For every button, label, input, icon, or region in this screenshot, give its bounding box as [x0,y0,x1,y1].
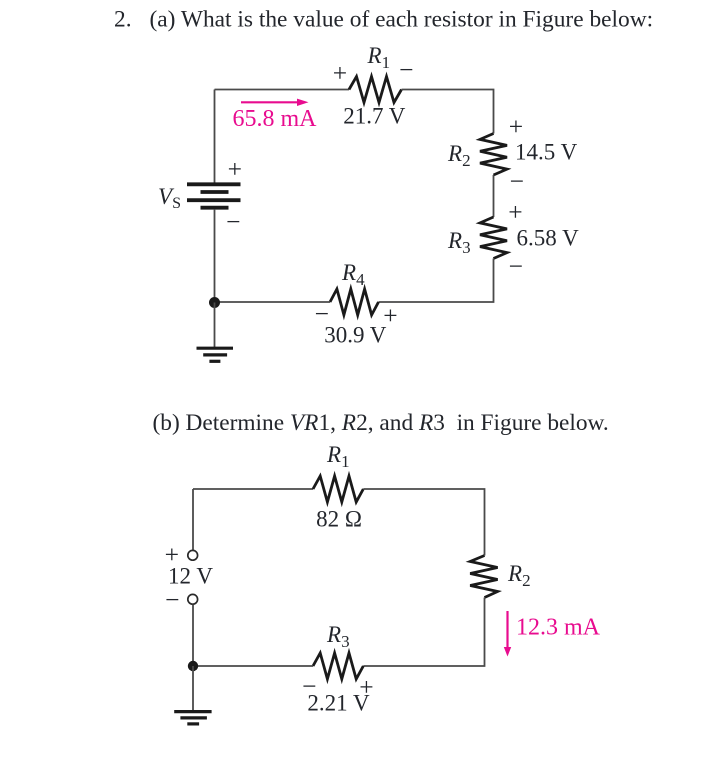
svg-text:R1: R1 [367,43,391,72]
wire: junction dot to ground (circuit b) [192,666,194,710]
junction dot (circuit b) [188,661,198,671]
svg-text:−: − [510,167,524,196]
svg-text:2.: 2. [114,7,132,33]
svg-text:30.9 V: 30.9 V [324,323,387,348]
wire: − terminal to junction dot (circuit b) [192,605,194,666]
wire: battery bottom to junction dot (circuit a) [214,210,216,303]
wire: R3 left to junction dot (circuit b) [193,665,313,667]
question text (a) [114,7,653,33]
svg-text:−: − [226,207,240,236]
svg-text:(b) Determine VR1, R2, and R3: (b) Determine VR1, R2, and R3 in Figure … [153,410,609,436]
wire: top-left corner to R1 left (circuit b) [193,488,313,490]
resistor R3 (circuit a) [480,217,507,259]
svg-text:+: + [509,112,523,141]
wire: top-left corner down to + terminal (circuit b) [192,489,194,550]
svg-text:2.21 V: 2.21 V [307,691,370,716]
wire: R4 left to junction dot (circuit a) [215,301,331,303]
svg-text:+: + [228,155,242,184]
wire: top-left corner down to battery top (circuit a) [214,90,216,183]
resistor R2 (circuit b) [470,556,497,598]
svg-text:6.58 V: 6.58 V [517,226,580,251]
ground symbol (circuit b) [174,712,211,724]
svg-text:+: + [508,198,522,227]
svg-text:+: + [333,59,347,88]
svg-text:−: − [509,252,523,281]
current arrow 12.3 mA (circuit b) [504,611,511,657]
battery source VS (circuit a) [187,184,241,207]
ground symbol (circuit a) [197,348,234,361]
svg-text:R3: R3 [447,228,471,257]
resistor R1 (circuit a) [349,77,402,103]
resistor R3 (circuit b) [313,653,363,679]
svg-text:R2: R2 [507,561,531,590]
resistor R4 (circuit a) [330,289,379,315]
svg-text:R1: R1 [326,442,350,471]
svg-text:21.7 V: 21.7 V [343,104,406,129]
wire: R1 right to top-right corner down to R2 top (circuit b) [363,489,484,556]
svg-text:VS: VS [158,184,181,212]
terminal − (circuit b) [188,594,198,604]
current arrow (circuit a) [241,99,309,106]
terminal + (circuit b) [188,550,198,560]
svg-text:R4: R4 [341,260,365,289]
wire: R2 bottom to bottom-right corner to R3 right (circuit b) [363,598,484,667]
svg-text:12.3 mA: 12.3 mA [516,615,601,641]
wire: top-left corner to R1 left (circuit a) [215,89,350,91]
svg-text:82 Ω: 82 Ω [316,507,362,532]
junction dot (circuit a) [209,297,220,308]
wire: R2 bottom to R3 top (circuit a) [493,175,495,217]
wire: R1 right to top-right corner down to R2 top (circuit a) [402,90,494,134]
svg-text:(a) What is the value of each: (a) What is the value of each resistor i… [150,7,654,33]
wire: junction dot to ground (circuit a) [214,303,216,348]
svg-text:−: − [399,55,413,84]
svg-text:R2: R2 [447,141,471,170]
svg-text:R3: R3 [326,622,350,651]
svg-text:14.5 V: 14.5 V [515,140,578,165]
resistor R2 (circuit a) [480,134,507,176]
resistor R1 (circuit b) [313,476,363,502]
wire: R3 bottom to bottom-right corner to R4 right (circuit a) [379,259,494,303]
svg-text:65.8 mA: 65.8 mA [233,106,318,132]
svg-text:−: − [165,585,179,614]
